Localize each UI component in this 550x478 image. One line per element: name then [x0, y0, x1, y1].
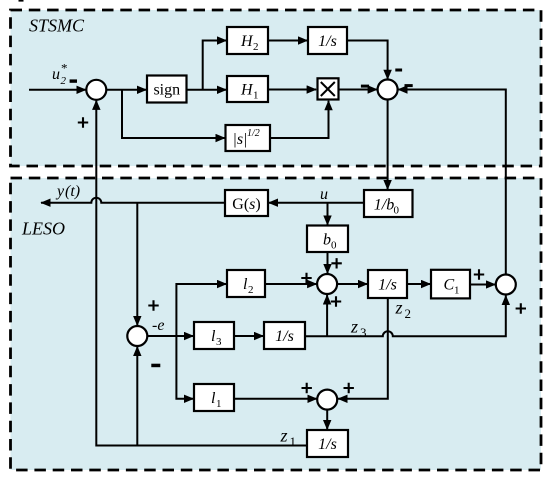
summing junction S6: [317, 390, 337, 410]
wire -e to l3: [176, 335, 193, 337]
svg-text:C: C: [444, 277, 455, 294]
wire abs block to multiplier: [270, 101, 329, 138]
top edge stray mark: [19, 0, 24, 2]
plus sign left of S3: [301, 273, 311, 283]
block 1/s mid: [368, 270, 407, 298]
svg-text:H: H: [240, 33, 254, 50]
svg-text:1/s: 1/s: [318, 33, 337, 50]
svg-text:*: *: [61, 61, 68, 76]
wire z1 branch up to S5 bottom: [136, 347, 138, 446]
plus sign below-right of S4: [516, 303, 526, 313]
wire z2 from 1/s mid bottom to S6 right: [338, 298, 388, 399]
block 1/b0: [364, 190, 413, 217]
wire H2 to integrator 1/s: [268, 40, 308, 42]
minus sign left of S2: [361, 85, 369, 88]
block sign: [147, 76, 187, 103]
wire sign to H1: [187, 89, 227, 91]
wire branch up to H2: [203, 41, 227, 90]
wire multiplier to S2: [339, 89, 378, 91]
svg-text:2: 2: [253, 41, 259, 53]
svg-text:sign: sign: [153, 82, 180, 99]
block b0: [307, 226, 348, 253]
wire l2 to S3: [265, 283, 317, 285]
plus sign above S5: [148, 300, 158, 310]
block H2: [227, 27, 268, 54]
plus sign below-right of S3: [331, 296, 341, 306]
wire 1/b0 to G(s) with u label: [269, 202, 365, 204]
block l1: [194, 384, 234, 411]
svg-text:z: z: [395, 298, 403, 318]
svg-text:1/s: 1/s: [378, 277, 397, 294]
svg-text:1/b: 1/b: [374, 197, 394, 214]
svg-text:1/2: 1/2: [247, 128, 260, 139]
block G(s): [225, 190, 268, 216]
block H1: [227, 76, 268, 102]
minus sign at S1 input: [70, 79, 77, 82]
wire C1 to S4: [470, 284, 495, 286]
svg-text:b: b: [323, 232, 331, 249]
summing junction S5: [127, 326, 147, 346]
svg-text:1/s: 1/s: [275, 328, 294, 345]
summing junction S2: [378, 80, 398, 100]
block l2: [227, 270, 265, 297]
wire y(t) output with hop: [41, 198, 225, 203]
block |s|^1/2: [226, 125, 271, 151]
svg-text:2: 2: [405, 306, 412, 321]
minus sign below S5: [151, 364, 160, 368]
svg-text:0: 0: [331, 240, 337, 252]
plus sign below S1: [78, 117, 88, 127]
svg-text:1: 1: [290, 434, 297, 449]
svg-text:|s|: |s|: [232, 131, 247, 148]
wire S6 down to 1/s bottom: [326, 410, 328, 430]
STSMC dashed box: [11, 10, 542, 166]
block 1/s bottom: [307, 430, 348, 457]
wire branch down to abs block: [122, 90, 225, 138]
summing junction S3: [317, 274, 337, 294]
wire 1/s to S2 top: [347, 41, 388, 80]
summing junction S4: [496, 275, 516, 295]
svg-text:u: u: [52, 66, 60, 83]
minus sign right of S2: [405, 84, 413, 87]
svg-text:2: 2: [61, 75, 67, 87]
wire H1 to multiplier: [268, 89, 316, 91]
minus sign above S2: [395, 69, 402, 72]
block C1: [431, 270, 470, 299]
multiplier block X: [318, 78, 339, 99]
svg-text:1: 1: [454, 285, 460, 297]
svg-text:-e: -e: [152, 317, 164, 334]
svg-text:(t): (t): [65, 183, 80, 200]
wire z1 feedback left and up to S1: [96, 100, 307, 445]
wire -e down to l1: [176, 336, 193, 399]
plus sign right of b0 wire: [331, 258, 341, 268]
plus sign left of S6: [302, 383, 312, 393]
svg-text:LESO: LESO: [21, 218, 65, 238]
wire S4 output up to S2 right input: [398, 90, 506, 275]
block 1/s top: [308, 27, 347, 54]
svg-text:1: 1: [216, 398, 222, 410]
svg-text:2: 2: [248, 284, 254, 296]
wire S1 to sign block: [106, 89, 146, 91]
wire b0 to S3 top: [327, 252, 329, 274]
svg-text:y: y: [55, 183, 65, 200]
plus sign above C1 output: [474, 269, 484, 279]
wire l3 to 1/s: [234, 335, 264, 337]
svg-text:G(s): G(s): [232, 196, 260, 213]
svg-text:STSMC: STSMC: [29, 15, 85, 35]
block 1/s after l3: [264, 322, 305, 349]
svg-text:H: H: [240, 82, 254, 99]
svg-text:1: 1: [253, 90, 259, 102]
svg-text:z: z: [280, 426, 288, 446]
wire u2* input to S1: [29, 89, 86, 91]
wire S3 to 1/s mid: [337, 283, 367, 285]
wire 1/s mid to C1: [407, 283, 431, 285]
wire -e output and branches: [147, 284, 226, 336]
wire S2 down to 1/b0: [387, 100, 389, 190]
svg-text:z: z: [350, 317, 358, 337]
svg-text:u: u: [320, 186, 328, 203]
svg-text:1/s: 1/s: [318, 436, 337, 453]
block l3: [194, 322, 234, 349]
wire z3 with hop and branches: [305, 296, 506, 337]
wire branch down to S5 top: [136, 203, 138, 326]
svg-text:0: 0: [394, 205, 400, 217]
svg-text:3: 3: [216, 336, 222, 348]
LESO dashed box: [11, 178, 542, 470]
plus sign right of S6: [344, 383, 354, 393]
summing junction S1: [86, 80, 106, 100]
wire z3 branch up to S3 bottom: [326, 295, 328, 336]
wire l1 to S6: [234, 398, 317, 400]
svg-text:3: 3: [360, 325, 367, 340]
wire branch from u line down to b0: [327, 203, 329, 225]
